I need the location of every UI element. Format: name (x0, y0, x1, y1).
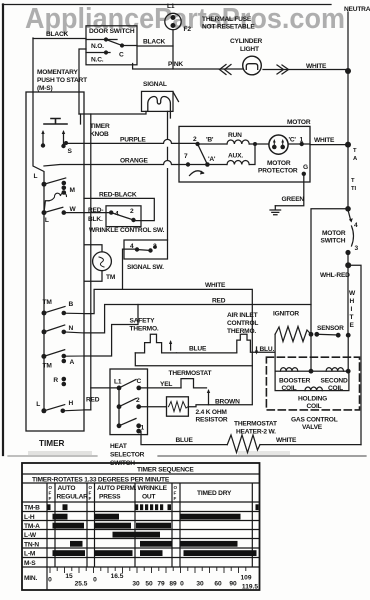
wire right return (white) (348, 265, 361, 444)
junction whl-red (345, 262, 351, 268)
motor switch arc (352, 226, 354, 246)
svg-text:2.4 K OHM: 2.4 K OHM (196, 409, 228, 416)
M-S contact left (41, 143, 45, 147)
wire ORANGE (44, 161, 188, 167)
timer L-H contact (41, 408, 46, 413)
svg-text:F: F (174, 491, 177, 496)
timer N contact (62, 330, 67, 335)
svg-text:HEAT: HEAT (110, 443, 127, 450)
svg-text:REGULAR: REGULAR (57, 494, 89, 501)
svg-text:HEATER-2 W.: HEATER-2 W. (236, 429, 276, 436)
bars row L-H (53, 514, 68, 520)
motor terminal 2 (195, 142, 199, 146)
wrinkle sw terminal 2 (131, 218, 135, 222)
svg-text:THERMOSTAT: THERMOSTAT (234, 421, 277, 428)
svg-text:0: 0 (93, 577, 97, 584)
svg-text:(M-S): (M-S) (37, 85, 52, 92)
heat sel L1 contact (117, 386, 122, 391)
signal sw contacts (135, 247, 139, 251)
ignitor element (275, 327, 311, 342)
timer L-M blade (44, 178, 66, 184)
timer L contact (42, 182, 47, 187)
signal sw box (124, 240, 168, 259)
svg-text:2: 2 (136, 397, 140, 404)
gas control valve dashed box (266, 357, 359, 410)
svg-text:L-H: L-H (24, 514, 35, 521)
svg-text:'C': 'C' (289, 137, 297, 144)
bus motor sw to junction (347, 253, 349, 336)
svg-text:WHITE: WHITE (276, 437, 297, 444)
junction bus top of motor switch (345, 206, 351, 212)
svg-text:KNOB: KNOB (90, 131, 109, 138)
svg-text:F2: F2 (184, 26, 192, 33)
svg-text:WHITE: WHITE (205, 282, 226, 289)
cylinder light lamp (243, 56, 262, 75)
svg-text:PINK: PINK (168, 61, 183, 68)
door switch blade (106, 40, 122, 46)
svg-text:SENSOR: SENSOR (317, 325, 344, 332)
svg-text:TI: TI (351, 186, 357, 192)
safety thermo arrow (170, 342, 172, 350)
second coil (326, 368, 343, 372)
gas valve coils box (275, 371, 349, 390)
wire PINK (133, 64, 243, 70)
svg-text:79: 79 (157, 581, 165, 588)
junction coils top (309, 369, 314, 374)
svg-text:BLK.: BLK. (88, 216, 103, 223)
momentary push button M-S (44, 119, 67, 125)
svg-text:4: 4 (130, 243, 134, 250)
heat sel column (118, 388, 120, 426)
svg-text:H: H (350, 298, 355, 305)
svg-text:1: 1 (300, 137, 304, 144)
wire white staircase (signal sw to thermostat) (84, 289, 252, 404)
svg-text:MOTOR: MOTOR (267, 160, 291, 167)
wire signal box to signal sw. (167, 111, 169, 240)
TM loop wires (85, 245, 102, 282)
svg-text:TM: TM (106, 274, 116, 281)
connector chevrons left (220, 65, 232, 75)
motor protector (269, 135, 288, 154)
svg-text:ORANGE: ORANGE (120, 158, 149, 165)
motor centrifugal arc (190, 171, 204, 176)
svg-text:AUTO PERM.: AUTO PERM. (97, 485, 137, 492)
wire to safety thermo staircase (84, 305, 138, 357)
svg-text:COIL: COIL (307, 403, 322, 410)
svg-text:RED: RED (86, 397, 100, 404)
timer R contact (62, 377, 67, 382)
svg-text:NOT RESETABLE: NOT RESETABLE (202, 24, 255, 31)
wire BLUE mid (177, 352, 237, 354)
svg-text:THERMAL FUSE: THERMAL FUSE (202, 16, 252, 23)
svg-text:SIGNAL SW.: SIGNAL SW. (127, 264, 164, 271)
svg-text:T: T (351, 178, 355, 184)
door switch C contact (120, 43, 124, 47)
svg-text:AUX.: AUX. (228, 153, 243, 160)
svg-text:BLU.: BLU. (260, 346, 275, 353)
vertical wire right of timer (90, 114, 92, 410)
thermostat heater element (227, 435, 260, 453)
booster coil (280, 368, 297, 372)
svg-text:RED: RED (212, 298, 226, 305)
wire RED timer to L1 (84, 388, 119, 410)
signal coil box (142, 91, 174, 111)
svg-text:60: 60 (214, 581, 222, 588)
page frame top border (3, 4, 332, 6)
svg-text:MOTOR: MOTOR (287, 119, 311, 126)
wire signal coil to M-S (79, 111, 146, 114)
motor switch contact 3 (345, 250, 350, 255)
motor terminal 7 (186, 162, 190, 166)
wire WHITE bottom (260, 444, 361, 446)
wrinkle control sw box RED-BLK (106, 206, 141, 227)
heat selector box (110, 369, 148, 435)
svg-text:WRINKLE CONTROL SW.: WRINKLE CONTROL SW. (89, 227, 165, 234)
door switch box (86, 26, 137, 65)
svg-text:0: 0 (48, 577, 52, 584)
svg-text:VALVE: VALVE (302, 424, 323, 431)
thermostat element (181, 379, 207, 388)
svg-text:O: O (49, 485, 53, 490)
wire sensor to coils (311, 334, 348, 371)
svg-text:WRINKLE: WRINKLE (138, 485, 168, 492)
svg-text:L-W: L-W (24, 532, 37, 539)
timer inner bus (43, 184, 45, 411)
svg-text:W: W (70, 206, 77, 213)
svg-text:SAFETY: SAFETY (130, 318, 156, 325)
svg-text:TIMER-ROTATES 1.33 DEGREES: TIMER-ROTATES 1.33 DEGREES PER MINUTE (32, 477, 170, 484)
motor centrifugal blade (198, 144, 208, 165)
motor switch blade on bus (348, 210, 351, 220)
svg-text:119.5: 119.5 (242, 584, 258, 591)
svg-text:L: L (34, 173, 38, 180)
svg-text:BOOSTER: BOOSTER (279, 378, 311, 385)
svg-text:F: F (49, 496, 52, 501)
svg-text:30: 30 (132, 581, 140, 588)
svg-text:30: 30 (196, 581, 204, 588)
heat sel mid contact (117, 404, 122, 409)
svg-text:PURPLE: PURPLE (120, 137, 146, 144)
svg-text:TIMER: TIMER (90, 123, 110, 130)
svg-text:YEL: YEL (160, 381, 172, 388)
bars row TN-N (70, 541, 83, 547)
svg-text:TIMER SEQUENCE: TIMER SEQUENCE (137, 467, 194, 474)
svg-text:15: 15 (65, 573, 73, 580)
safety thermostat element (135, 334, 176, 353)
svg-text:WHL-RED: WHL-RED (320, 272, 350, 279)
wire BLU to booster (256, 334, 275, 371)
svg-text:THERMO.: THERMO. (130, 326, 159, 333)
page frame bottom border (8, 455, 97, 457)
M-S contact S (61, 144, 65, 148)
wrinkle sw terminal 4 (109, 210, 113, 214)
svg-text:BLACK: BLACK (143, 39, 166, 46)
door switch N.O. contact (104, 37, 108, 41)
neutral bus (347, 12, 349, 207)
bars row TM-A (53, 523, 85, 529)
svg-text:SWITCH: SWITCH (321, 238, 346, 245)
wire neutral branch to ignitor column (311, 209, 348, 305)
wire WHITE light to neutral (263, 69, 348, 71)
svg-text:RUN: RUN (228, 132, 242, 139)
svg-text:NEUTRAL: NEUTRAL (344, 6, 370, 13)
holding coil (305, 387, 322, 391)
timer sequence table frame (22, 463, 260, 590)
signal box arrow (173, 92, 179, 102)
blu arrow (256, 347, 258, 353)
svg-text:HOLDING: HOLDING (298, 396, 327, 403)
svg-text:T: T (350, 314, 354, 321)
svg-text:109: 109 (240, 575, 251, 582)
svg-text:C: C (137, 378, 142, 385)
svg-text:COIL: COIL (282, 385, 297, 392)
bars row L-M (53, 550, 86, 556)
run winding (227, 140, 249, 144)
svg-text:BLUE: BLUE (176, 437, 194, 444)
air inlet control thermo element (237, 334, 256, 352)
svg-text:MIN.: MIN. (24, 575, 37, 582)
wrinkle sw blade (111, 213, 133, 220)
svg-text:L: L (36, 401, 40, 408)
thermostat arrow (208, 391, 210, 404)
timer box (26, 92, 84, 431)
svg-text:THERMOSTAT: THERMOSTAT (169, 370, 212, 377)
svg-text:7: 7 (184, 153, 188, 160)
svg-text:RESISTOR: RESISTOR (196, 417, 228, 424)
svg-text:1: 1 (141, 425, 145, 432)
svg-text:2: 2 (193, 136, 197, 143)
svg-text:O: O (89, 485, 93, 490)
heat sel bottom contact (117, 423, 122, 428)
wire BLUE bottom (139, 431, 228, 445)
timer contact exit stubs (64, 312, 84, 314)
svg-text:L1: L1 (167, 3, 175, 10)
svg-text:IGNITOR: IGNITOR (273, 311, 299, 318)
wire YEL C to thermostat (139, 387, 181, 389)
timer motor TM circle (93, 252, 112, 271)
svg-text:N: N (69, 325, 74, 332)
svg-text:MOMENTARY: MOMENTARY (37, 69, 78, 76)
signal coil (148, 96, 171, 118)
motor G terminal (302, 172, 306, 176)
resistor zigzag (169, 402, 189, 412)
svg-text:TM: TM (43, 363, 53, 370)
svg-text:PROTECTOR: PROTECTOR (258, 168, 298, 175)
svg-text:N.C.: N.C. (91, 57, 104, 64)
timer blade pivot dots (42, 311, 47, 316)
table row lines (22, 473, 260, 475)
junction neutral/white (345, 68, 351, 74)
svg-text:N.O.: N.O. (91, 43, 104, 50)
svg-text:SIGNAL: SIGNAL (143, 81, 167, 88)
svg-text:PUSH TO START: PUSH TO START (37, 77, 87, 84)
wire RED-BLACK (84, 198, 154, 220)
heat sel C contact (136, 386, 141, 391)
svg-text:MOTOR: MOTOR (322, 230, 346, 237)
sensor blade (317, 333, 338, 336)
svg-text:GREEN: GREEN (282, 196, 305, 203)
aux winding (227, 161, 249, 165)
svg-text:BROWN: BROWN (215, 399, 240, 406)
svg-text:A: A (70, 359, 75, 366)
svg-text:F: F (174, 496, 177, 501)
wire N.C. stub down (79, 49, 86, 114)
svg-text:H: H (69, 400, 74, 407)
svg-text:M-S: M-S (24, 560, 36, 567)
wire signal sw 4 to white staircase (123, 249, 138, 289)
watermark smudge 2 (28, 451, 92, 455)
svg-text:L1: L1 (114, 379, 122, 386)
door switch N.C. contact (104, 50, 108, 54)
connector chevrons right (277, 65, 289, 74)
blue jog down to brown loop (135, 353, 252, 366)
svg-text:4: 4 (354, 222, 358, 229)
page frame left border (2, 5, 4, 456)
svg-text:F: F (49, 491, 52, 496)
svg-text:WHITE: WHITE (306, 63, 327, 70)
ground symbol (270, 206, 281, 215)
svg-text:16.5: 16.5 (111, 573, 124, 580)
svg-text:OUT: OUT (142, 494, 155, 501)
junction run/aux (253, 142, 257, 146)
svg-text:T: T (353, 148, 357, 154)
motor box (179, 126, 310, 182)
ruler ticks (49, 567, 51, 573)
fuse F2 (L1 terminal) (165, 13, 181, 29)
bars row TM-B (48, 504, 51, 510)
svg-text:3: 3 (355, 245, 359, 252)
svg-text:50: 50 (145, 581, 153, 588)
sensor contacts (309, 332, 314, 337)
wire BLACK to door switch (33, 38, 86, 40)
svg-text:TN-N: TN-N (24, 542, 39, 549)
svg-text:F: F (89, 496, 92, 501)
2.4k ohm resistor box (167, 397, 189, 416)
svg-text:LIGHT: LIGHT (240, 46, 259, 53)
wire W to wrinkle sw (64, 212, 111, 214)
svg-text:RED-: RED- (88, 207, 103, 214)
heat sel blade L1-C (119, 380, 136, 388)
svg-text:TIMER: TIMER (39, 439, 65, 448)
svg-text:'A': 'A' (208, 156, 216, 163)
svg-text:AIR INLET: AIR INLET (227, 312, 258, 319)
timer M contact dots (62, 181, 67, 186)
table column lines (46, 483, 48, 567)
svg-text:2: 2 (153, 243, 157, 250)
svg-text:WHITE: WHITE (314, 137, 335, 144)
svg-text:COIL: COIL (328, 385, 343, 392)
wire PURPLE (66, 139, 198, 143)
wire resistor to brown (188, 405, 208, 407)
svg-text:TIMED DRY: TIMED DRY (197, 490, 232, 497)
svg-text:PRESS: PRESS (99, 494, 121, 501)
bars row L-W (113, 532, 161, 538)
timer W contact (42, 210, 47, 215)
svg-text:W: W (349, 290, 356, 297)
svg-text:DOOR SWITCH: DOOR SWITCH (89, 28, 135, 35)
wire red staircase (84, 305, 311, 335)
thermal fuse L1/F2 drop (172, 30, 174, 69)
svg-text:CONTROL: CONTROL (227, 320, 258, 327)
svg-text:4: 4 (115, 211, 119, 218)
svg-text:B: B (69, 301, 74, 308)
svg-text:AUTO: AUTO (58, 485, 76, 492)
timer TM-A contact (62, 354, 67, 359)
svg-text:90: 90 (229, 581, 237, 588)
svg-text:0: 0 (180, 581, 184, 588)
svg-text:C: C (119, 52, 124, 59)
svg-text:GAS CONTROL: GAS CONTROL (291, 417, 338, 424)
wire BROWN (209, 404, 253, 406)
timer TM-B contact (62, 311, 67, 316)
svg-text:BLUE: BLUE (189, 346, 207, 353)
svg-text:BLACK: BLACK (46, 31, 69, 38)
svg-text:M: M (70, 187, 76, 194)
svg-text:TM: TM (43, 299, 53, 306)
svg-text:RED-BLACK: RED-BLACK (99, 192, 137, 199)
wire WHITE motor to bus (310, 144, 348, 146)
svg-text:25.5: 25.5 (75, 581, 88, 588)
motor terminal 1 C (300, 142, 304, 146)
timer M coil (49, 193, 67, 201)
svg-text:SELECTOR: SELECTOR (110, 452, 145, 459)
wire GREEN (275, 174, 304, 206)
svg-text:2: 2 (130, 208, 134, 215)
svg-text:TM-B: TM-B (24, 505, 40, 512)
svg-text:R: R (53, 377, 58, 384)
svg-text:L-M: L-M (24, 551, 36, 558)
svg-text:O: O (174, 485, 178, 490)
svg-text:TM-A: TM-A (24, 523, 40, 530)
svg-text:F: F (89, 491, 92, 496)
svg-text:L: L (45, 217, 49, 224)
svg-text:89: 89 (169, 581, 177, 588)
wire heat sel 2 to resistor (139, 406, 167, 408)
svg-text:'B': 'B' (206, 137, 214, 144)
svg-text:THERMO.: THERMO. (227, 328, 256, 335)
svg-text:G: G (303, 164, 308, 171)
wire timer to door N.C. drop (33, 38, 44, 184)
wire BLACK door C to L1 fuse (122, 45, 173, 48)
svg-text:CYLINDER: CYLINDER (230, 38, 263, 45)
svg-text:SECOND: SECOND (321, 378, 348, 385)
